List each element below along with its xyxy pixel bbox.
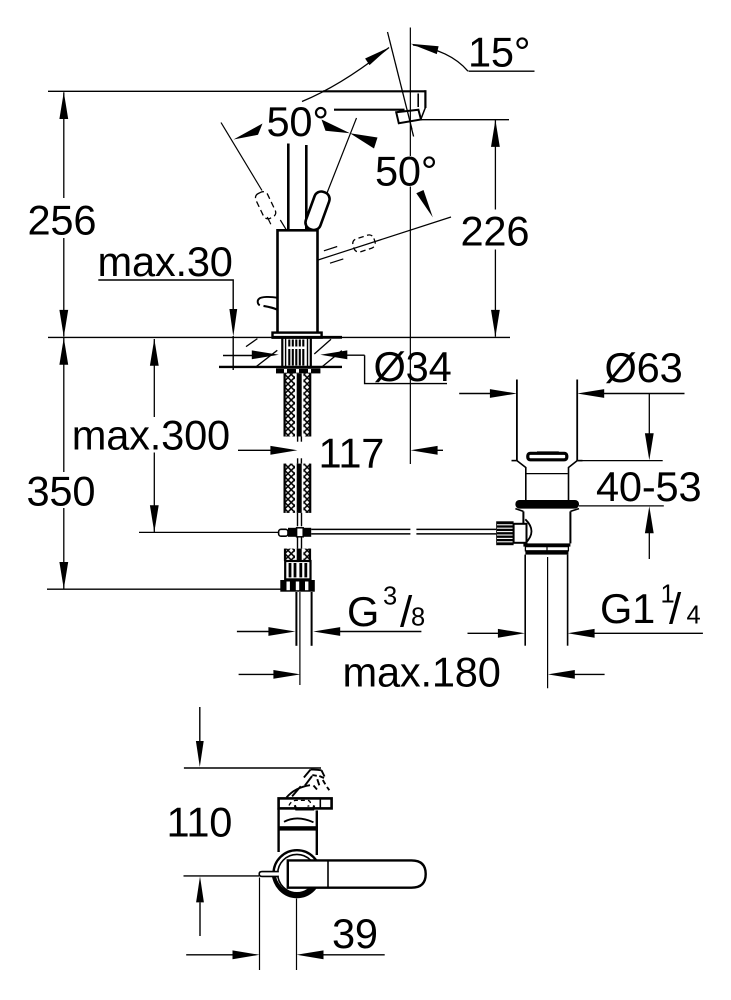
countertop hatching [246, 339, 342, 367]
svg-text:50°: 50° [375, 148, 437, 195]
svg-text:117: 117 [319, 430, 385, 477]
arc arrowhead left of first 50-degree label [234, 124, 263, 140]
wire: spout tip reference line [421, 119, 509, 121]
svg-text:350: 350 [27, 468, 96, 515]
bottom view: pivot circles [274, 850, 321, 897]
dimension max.180 [239, 673, 275, 675]
dimension diameter 34 arrows and leader [223, 355, 254, 357]
tee fitting of pop-up rod [279, 528, 312, 537]
dimension max.300 vertical [153, 339, 155, 417]
svg-text:Ø34: Ø34 [374, 343, 452, 390]
arc arrowhead below second 50-degree label [416, 190, 433, 217]
wire: tilted 15-degree line through spout tip [388, 32, 413, 130]
construction ray to left dashed lever [221, 123, 262, 191]
drain body bottom bands [523, 543, 570, 546]
dimension 117 [238, 449, 272, 451]
dimension 39 extension lines [259, 878, 261, 971]
dimension G 1 1/4 [468, 632, 500, 634]
svg-text:G1: G1 [600, 585, 655, 632]
svg-text:max.180: max.180 [343, 649, 501, 696]
wire: 350 bottom reference line [47, 588, 281, 590]
pop-up rod visible in hose break [298, 437, 302, 464]
bottom view: collar bar [279, 798, 332, 808]
dimension 256 vertical [63, 92, 65, 198]
arc arrowhead right of first 50-degree label [322, 120, 351, 134]
dimension 110 bottom reference line [184, 875, 260, 877]
bottom view: wavy line across body [284, 818, 314, 822]
base plate [273, 333, 322, 338]
dimension 110 lower arrow [196, 876, 204, 902]
dimension 39 arrows [186, 954, 234, 956]
bottom view: temperature pin [259, 872, 279, 877]
svg-text:8: 8 [411, 603, 425, 631]
supply tails below nut [295, 592, 297, 646]
bottom view: projected spout strokes [287, 770, 330, 798]
dimension G 3/8 [237, 631, 270, 633]
braided hose upper segment [285, 373, 311, 436]
dashes continuing far-right lever axis [324, 247, 337, 251]
svg-text:3: 3 [383, 583, 397, 611]
svg-text:G: G [347, 588, 379, 635]
pop-up rod between hose and tee [298, 513, 302, 549]
svg-text:50°: 50° [267, 98, 329, 145]
wire: top reference line at spout level [48, 90, 324, 92]
svg-text:226: 226 [461, 208, 530, 255]
label 15 degrees with leader line [469, 70, 535, 72]
spout horizontal arm [323, 90, 425, 110]
construction line through right dashed lever [318, 217, 451, 260]
svg-text:4: 4 [687, 601, 701, 629]
svg-text:15°: 15° [468, 29, 530, 76]
svg-text:Ø63: Ø63 [605, 344, 683, 391]
faucet body [278, 230, 318, 332]
hose end nut [280, 580, 315, 592]
bottom view: dark band on body [278, 826, 318, 830]
construction ray through solid lever axis [327, 118, 357, 193]
bottom view: handle lever [288, 860, 426, 887]
wire: max.300 bottom reference line [139, 531, 279, 533]
threaded shank through counter [282, 338, 311, 368]
drain tailpipe [524, 555, 526, 646]
svg-text:39: 39 [332, 910, 378, 957]
bottom view: body sides [277, 808, 279, 852]
dimension 40-53 [578, 460, 663, 462]
wire: vertical centerline through spout tip [409, 28, 411, 157]
svg-text:256: 256 [28, 197, 97, 244]
pop-up rod hook on body left side [258, 297, 278, 305]
dimension diameter 63 [459, 393, 491, 395]
svg-text:40-53: 40-53 [596, 463, 701, 510]
lever in upright position (two vertical lines) [287, 144, 290, 230]
dimension 226 vertical [494, 120, 496, 209]
o-ring seal [515, 500, 579, 509]
countertop bottom line [219, 366, 342, 368]
drain valve body [515, 509, 523, 512]
arc arrowhead pointing back left (second arc start) [350, 133, 378, 148]
svg-text:/: / [669, 585, 682, 634]
braided hose lower segment [285, 464, 311, 513]
dimension 350 vertical [63, 338, 65, 472]
solid lever tilted right [303, 190, 331, 232]
dimension arc 15 degrees right part [413, 45, 468, 71]
dashed lever tilted left [254, 190, 278, 220]
countertop top line [48, 336, 510, 338]
dashes continuing left lever axis toward body [267, 217, 271, 224]
dimension 110 upper arrow [199, 707, 201, 742]
dashed lever far right position [351, 234, 376, 254]
svg-text:110: 110 [167, 799, 233, 846]
horizontal pop-up rod to drain [311, 529, 496, 534]
svg-text:max.30: max.30 [98, 238, 233, 285]
locknut under counter [276, 368, 320, 373]
dimension arc 15 degrees left part [302, 48, 389, 102]
svg-text:max.300: max.300 [72, 412, 230, 459]
hose crimp collar [285, 561, 310, 579]
pop-up rod knurled knob [496, 519, 531, 545]
bottom view: 110 top reference line [184, 767, 321, 769]
bottom view: spout base tray [295, 805, 314, 809]
drain rim and funnel neck [512, 460, 517, 462]
pop-up plug in drain [537, 451, 559, 453]
braided hose short segment below tee [285, 549, 310, 561]
spout aerator tip [396, 108, 425, 124]
drain outer tube walls [516, 380, 518, 461]
